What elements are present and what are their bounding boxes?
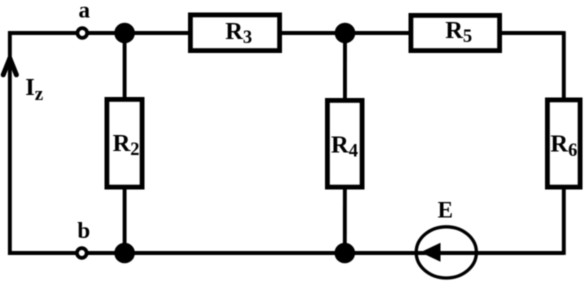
terminal a (open circle) bbox=[77, 28, 87, 38]
resistor R6 bbox=[547, 100, 580, 187]
wire R2 branch vertical bbox=[123, 33, 127, 253]
wire left vertical with Iz bbox=[8, 31, 12, 255]
svg-text:E: E bbox=[438, 197, 453, 222]
svg-text:b: b bbox=[77, 218, 90, 243]
node junction top-left bbox=[114, 23, 135, 44]
wire bottom horizontal b-to-right bbox=[8, 251, 564, 255]
wire R4 branch vertical bbox=[343, 33, 347, 253]
arrow of source E (pointing left) bbox=[421, 243, 441, 262]
resistor R4 bbox=[327, 100, 362, 187]
svg-text:Iz: Iz bbox=[25, 74, 44, 105]
resistor R5 bbox=[411, 15, 500, 50]
node junction bottom-middle bbox=[335, 243, 356, 264]
wire right vertical lower bbox=[562, 186, 566, 255]
arrow Iz (current direction up) bbox=[3, 55, 16, 75]
current source E (circle) bbox=[416, 227, 476, 278]
node junction top-middle bbox=[335, 23, 356, 44]
svg-text:a: a bbox=[79, 0, 91, 23]
node junction bottom-left bbox=[114, 243, 135, 264]
wire right vertical upper bbox=[562, 31, 566, 101]
resistor R2 bbox=[107, 99, 142, 187]
terminal b (open circle) bbox=[77, 248, 87, 258]
resistor R3 bbox=[190, 15, 279, 51]
wire top horizontal a-to-right bbox=[8, 31, 564, 35]
